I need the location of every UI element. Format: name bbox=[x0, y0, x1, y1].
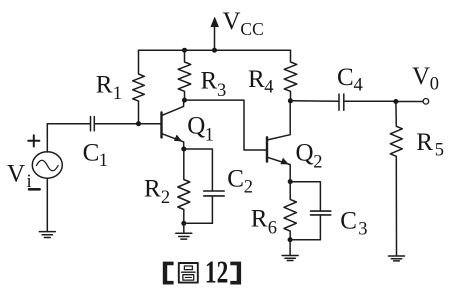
wire VCC top rail bbox=[139, 49, 291, 51]
svg-text:1: 1 bbox=[99, 151, 108, 171]
label C2 bbox=[227, 166, 253, 198]
label Q2 bbox=[296, 139, 323, 172]
capacitor C3 bbox=[290, 182, 331, 240]
svg-text:R: R bbox=[201, 68, 218, 95]
label V0 bbox=[412, 63, 439, 95]
svg-text:C: C bbox=[337, 64, 354, 91]
node Q1 collector R3 bottom bbox=[182, 98, 187, 103]
label Vi bbox=[7, 161, 32, 192]
node C4 R5 junction bbox=[393, 99, 398, 104]
svg-text:6: 6 bbox=[268, 219, 277, 239]
label minus sign bbox=[29, 188, 40, 191]
ground below R2 bbox=[176, 223, 192, 239]
label VCC bbox=[223, 8, 264, 39]
svg-text:R: R bbox=[248, 66, 265, 93]
node Q1 emitter junction bbox=[181, 147, 186, 152]
caption right bracket bbox=[230, 262, 241, 285]
label C1 bbox=[83, 140, 108, 172]
source Vi sine generator bbox=[32, 124, 62, 232]
svg-text:Q: Q bbox=[187, 113, 205, 140]
label plus sign bbox=[28, 135, 39, 146]
wire collector node to Q2 base bbox=[185, 100, 267, 150]
ground below Vi bbox=[39, 232, 55, 238]
label R1 bbox=[96, 72, 122, 105]
svg-text:R: R bbox=[251, 206, 268, 233]
resistor R3 bbox=[178, 50, 191, 100]
wire to output terminal bbox=[396, 101, 423, 103]
svg-text:5: 5 bbox=[435, 140, 444, 160]
resistor R6 bbox=[284, 182, 296, 240]
svg-text:R: R bbox=[416, 129, 433, 156]
svg-text:C: C bbox=[227, 166, 244, 193]
svg-text:R: R bbox=[96, 72, 113, 99]
node VCC rail junction bbox=[212, 48, 217, 53]
resistor R5 bbox=[390, 102, 402, 256]
node R3 top junction bbox=[182, 48, 187, 53]
svg-text:V: V bbox=[223, 8, 241, 35]
ground below R5 bbox=[389, 256, 405, 261]
label R3 bbox=[201, 68, 227, 101]
svg-text:R: R bbox=[144, 176, 161, 203]
svg-text:2: 2 bbox=[244, 177, 253, 197]
label Q1 bbox=[187, 113, 214, 146]
power VCC arrow symbol bbox=[211, 18, 218, 51]
label C3 bbox=[340, 207, 367, 239]
resistor R2 bbox=[178, 149, 190, 223]
svg-text:0: 0 bbox=[430, 75, 439, 95]
transistor Q1 bbox=[162, 100, 184, 149]
caption number 12 bbox=[205, 254, 228, 289]
svg-text:V: V bbox=[7, 161, 25, 188]
caption character tu (figure) bbox=[179, 263, 198, 283]
label R2 bbox=[144, 176, 170, 208]
svg-text:2: 2 bbox=[161, 188, 170, 208]
caption left bracket bbox=[163, 262, 174, 285]
label R5 bbox=[416, 129, 444, 161]
svg-text:3: 3 bbox=[217, 81, 226, 101]
svg-text:Q: Q bbox=[296, 139, 314, 166]
svg-text:4: 4 bbox=[264, 77, 273, 97]
svg-text:3: 3 bbox=[358, 220, 367, 240]
transistor Q2 bbox=[267, 101, 290, 182]
node R2 bottom junction bbox=[181, 221, 186, 226]
wire C3 bottom return bbox=[290, 239, 320, 241]
svg-text:i: i bbox=[27, 172, 32, 192]
svg-text:1: 1 bbox=[205, 126, 214, 146]
node R4 bottom Q2 collector bbox=[288, 98, 293, 103]
label R4 bbox=[248, 66, 274, 97]
svg-text:12: 12 bbox=[205, 254, 228, 289]
capacitor C2 bbox=[184, 149, 224, 223]
node R6 bottom junction bbox=[288, 237, 293, 242]
svg-text:C: C bbox=[83, 140, 100, 167]
node C1 R1 Q1-base junction bbox=[136, 121, 141, 126]
svg-text:C: C bbox=[340, 207, 357, 234]
resistor R4 bbox=[284, 50, 297, 100]
capacitor C4 bbox=[290, 94, 396, 110]
svg-text:1: 1 bbox=[113, 84, 122, 104]
ground below R6 bbox=[282, 240, 298, 261]
wire to Q1 base bbox=[139, 123, 161, 125]
svg-text:V: V bbox=[412, 63, 430, 90]
node Q2 emitter junction bbox=[288, 179, 293, 184]
wire C2 bottom return bbox=[184, 222, 213, 224]
label R6 bbox=[251, 206, 277, 239]
svg-text:CC: CC bbox=[240, 19, 263, 39]
svg-text:4: 4 bbox=[354, 76, 363, 96]
resistor R1 bbox=[133, 50, 145, 124]
capacitor C1 bbox=[47, 117, 138, 131]
terminal V0 open circle bbox=[423, 99, 429, 105]
svg-text:2: 2 bbox=[313, 152, 322, 172]
label C4 bbox=[337, 64, 363, 96]
